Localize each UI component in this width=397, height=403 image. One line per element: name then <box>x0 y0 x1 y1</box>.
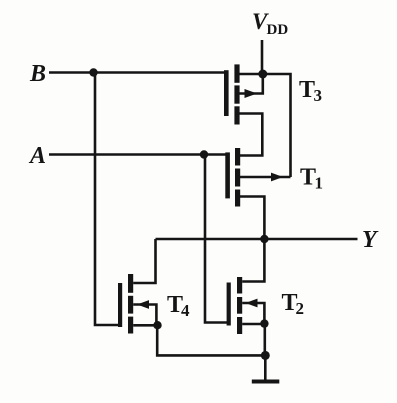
svg-text:3: 3 <box>314 86 323 105</box>
wire VDD node to right drop (T1 bulk) <box>240 74 291 177</box>
transistor T1 bulk arrow <box>271 173 283 182</box>
svg-text:A: A <box>28 143 46 169</box>
transistor T3 channel segments <box>234 64 239 82</box>
junction dot VDD node <box>258 70 267 79</box>
wire VDD drop <box>261 40 264 74</box>
wire T3 source to T1 drain <box>240 114 263 156</box>
transistor T2 channel segments <box>237 277 242 294</box>
transistor T2 bulk arrow <box>246 299 258 308</box>
junction dot ground rail <box>261 351 270 360</box>
wire T2 bulk to source <box>242 303 264 324</box>
wire T1 bulk <box>240 176 291 179</box>
wire input A horizontal <box>49 153 228 156</box>
transistor T4 channel segments <box>128 274 133 293</box>
wire input B vertical to T4 gate <box>95 73 120 326</box>
transistor T1 gate bar <box>225 152 230 198</box>
wire T2 source <box>242 323 264 326</box>
transistor T1 channel segments <box>235 148 240 166</box>
transistor T3 gate bar <box>224 70 229 116</box>
svg-text:Y: Y <box>362 227 379 253</box>
svg-text:2: 2 <box>296 299 305 318</box>
wire output Y horizontal <box>156 238 358 241</box>
wire T3 bulk to VDD node <box>240 74 263 94</box>
wire T1 source to node Y <box>240 197 264 240</box>
svg-text:DD: DD <box>267 22 289 38</box>
wire T4 source <box>133 324 157 327</box>
svg-text:1: 1 <box>315 174 324 193</box>
junction dot T2 source <box>260 319 268 327</box>
ground stub <box>264 355 267 380</box>
junction dot node Y <box>260 235 268 243</box>
wire T4 bulk to source <box>133 305 156 326</box>
transistor T3 bulk arrow <box>245 89 258 98</box>
junction dot node A <box>200 150 208 158</box>
transistor T4 bulk arrow <box>137 300 149 309</box>
junction dot node B <box>89 68 97 76</box>
wire T4 source down to ground rail <box>157 325 265 355</box>
transistor T2 gate bar <box>227 283 231 326</box>
wire T2 source down to ground rail <box>263 324 266 356</box>
ground bar <box>252 380 279 384</box>
svg-text:B: B <box>29 61 46 87</box>
wire node Y to T4 drain <box>133 239 155 283</box>
wire input A vertical to T2 gate <box>205 155 229 323</box>
wire node Y to T2 drain <box>242 239 264 282</box>
junction dot T4 source <box>153 321 161 329</box>
transistor T4 gate bar <box>118 283 122 327</box>
wire input B horizontal <box>49 71 226 74</box>
svg-text:4: 4 <box>181 301 190 320</box>
